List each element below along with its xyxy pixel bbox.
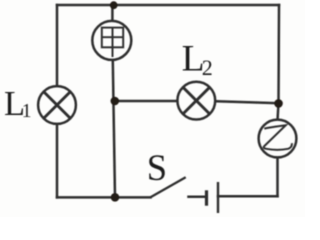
lamp L2 [177, 82, 215, 120]
wire bottom right horizontal (battery to right rail) [218, 195, 278, 198]
wire bottom left horizontal [57, 196, 151, 199]
node middle (junction dot) [111, 97, 120, 106]
switch S blade [151, 177, 186, 197]
wire right vertical lower [276, 159, 279, 197]
wire right vertical upper [278, 5, 279, 119]
svg-text:2: 2 [202, 55, 213, 80]
svg-text:1: 1 [22, 101, 32, 122]
ammeter Jia (meter 甲) [92, 21, 131, 60]
wire middle vertical upper [111, 5, 114, 20]
wire left vertical upper [56, 5, 59, 85]
battery positive plate (long) [217, 182, 219, 213]
wire left vertical lower [56, 125, 59, 197]
node bottom (junction dot) [111, 193, 120, 202]
battery negative plate (short) [205, 190, 208, 205]
ammeter Yi (meter 乙) [259, 120, 297, 158]
wire top horizontal [57, 4, 279, 7]
wire switch right contact [189, 196, 206, 199]
svg-text:S: S [147, 147, 167, 188]
wire branch right (L2 to right rail) [217, 101, 279, 103]
node right (junction dot) [274, 99, 283, 108]
node top (junction dot) [110, 1, 118, 9]
wire middle vertical lower [113, 61, 115, 197]
lamp L1 [38, 86, 76, 124]
wire branch left (node to L2) [115, 100, 177, 103]
